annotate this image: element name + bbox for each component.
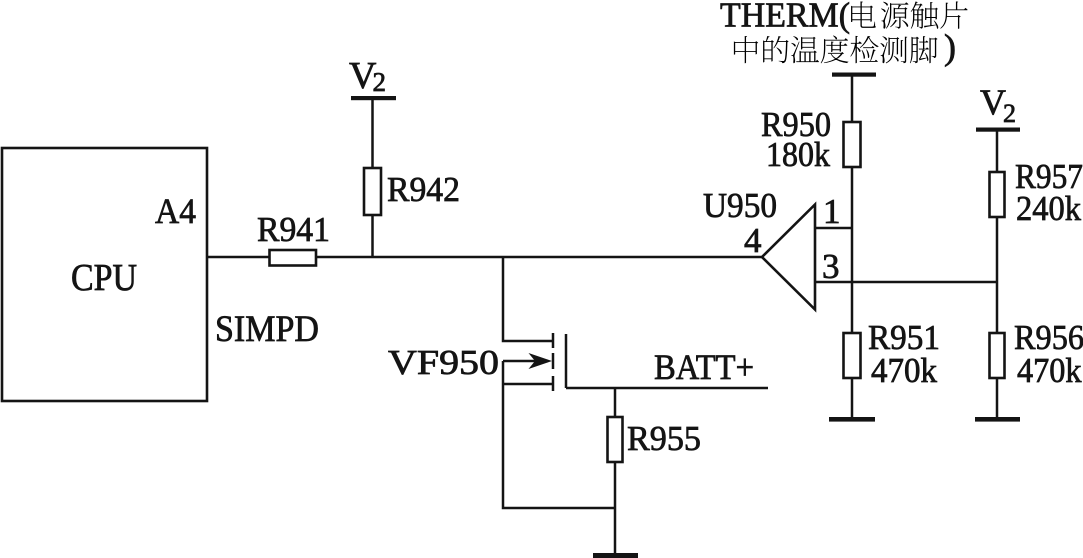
resistor R941 — [257, 210, 330, 266]
wire: pin 1 — [815, 227, 852, 230]
resistor R957 240k — [990, 157, 1083, 228]
ground (below R955) — [593, 553, 638, 558]
power symbol V2 (right) — [976, 82, 1020, 132]
CPU block A4 — [2, 148, 207, 401]
wire: V2 bar down through R957, R956 to ground — [996, 131, 999, 417]
resistor R951 470k — [844, 318, 941, 390]
wire: node to VF950 gate — [503, 257, 553, 341]
svg-text:470k: 470k — [871, 351, 937, 390]
net label THERM (Chinese annotation) line 1 — [720, 0, 968, 35]
svg-text:A4: A4 — [155, 191, 196, 231]
svg-text:2: 2 — [373, 67, 387, 97]
wire: BATT+ line down through R955 to ground — [614, 388, 617, 554]
resistor R942 — [364, 168, 460, 215]
net label THERM line 2 — [734, 27, 956, 67]
wire: V2 bar down to main wire through R942 — [371, 100, 374, 257]
svg-text:SIMPD: SIMPD — [215, 309, 319, 350]
svg-text:R942: R942 — [387, 170, 460, 209]
wire: pin 3 to R956/R957 node — [815, 281, 997, 284]
svg-text:VF950: VF950 — [388, 343, 499, 382]
transistor VF950 (MOSFET) — [503, 333, 566, 391]
wire: VF950 source/body down to bottom rail — [503, 361, 615, 508]
svg-text:4: 4 — [744, 221, 762, 260]
power/net symbol THERM bar — [832, 73, 876, 77]
svg-text:3: 3 — [822, 247, 840, 286]
wire: VF950 drain to BATT+ — [566, 387, 768, 390]
svg-text:U950: U950 — [703, 186, 777, 225]
svg-text:CPU: CPU — [71, 257, 137, 299]
ground (below R956) — [975, 417, 1020, 422]
svg-text:R941: R941 — [257, 210, 330, 249]
power symbol V2 (left) — [349, 55, 396, 100]
svg-text:470k: 470k — [1017, 351, 1082, 390]
op-amp U950 (comparator, pointing left) — [762, 205, 815, 310]
svg-text:2: 2 — [1003, 99, 1016, 128]
wire: THERM bar down through R950, R951 to ground — [851, 76, 854, 417]
svg-text:BATT+: BATT+ — [654, 347, 754, 387]
svg-text:240k: 240k — [1016, 189, 1081, 228]
svg-text:1: 1 — [823, 192, 841, 231]
svg-text:THERM(: THERM( — [720, 0, 850, 35]
svg-text:): ) — [944, 27, 956, 67]
ground (below R951) — [829, 417, 875, 422]
svg-text:180k: 180k — [766, 135, 830, 174]
resistor R955 — [608, 417, 702, 462]
wire: CPU pin A4 to U950 pin 4 (node SIMPD) — [207, 256, 762, 259]
svg-text:R955: R955 — [627, 419, 701, 458]
resistor R956 470k — [990, 318, 1083, 390]
resistor R950 180k — [761, 105, 861, 174]
